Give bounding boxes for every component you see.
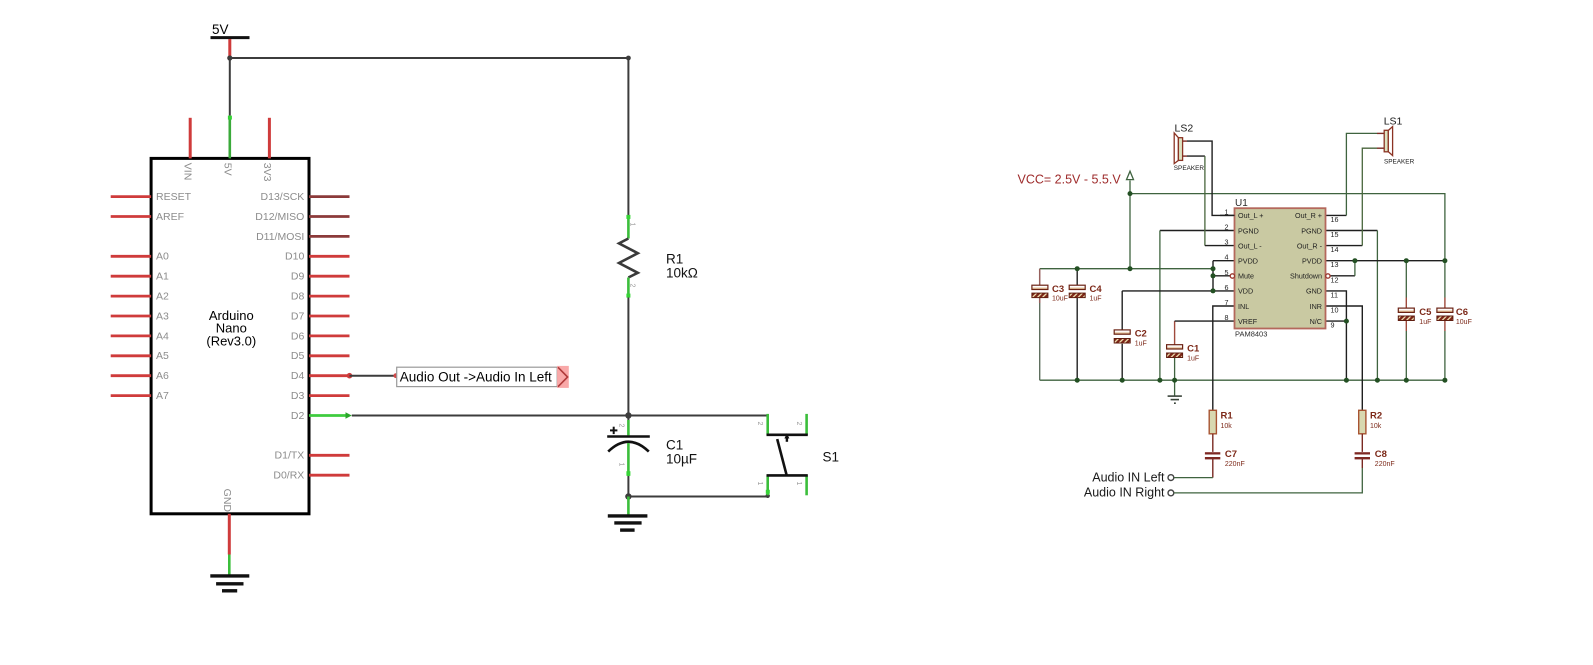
svg-text:Shutdown: Shutdown	[1290, 272, 1322, 281]
junction C5 on PVDD line	[1404, 258, 1409, 263]
pin D5	[291, 350, 350, 362]
svg-text:2: 2	[618, 424, 625, 428]
svg-text:GND: GND	[1306, 287, 1322, 296]
svg-text:C8: C8	[1375, 449, 1387, 460]
svg-text:10kΩ: 10kΩ	[666, 266, 698, 281]
capacitor C7	[1205, 449, 1245, 468]
svg-text:A0: A0	[156, 251, 169, 263]
junction Shutdown on PVDD line	[1352, 258, 1357, 263]
U1 pin 16 Out_R+	[1295, 211, 1338, 224]
svg-text:A6: A6	[156, 370, 169, 382]
U1 pin 1 Out_L+	[1220, 207, 1264, 220]
wire C7 to audio in left	[1212, 459, 1214, 478]
svg-text:7: 7	[1225, 298, 1229, 307]
junction C4 top on VCC bus	[1075, 266, 1080, 271]
wire pin12 Shutdown up to PVDD line	[1330, 261, 1355, 276]
wire pin2 PGND	[1160, 231, 1235, 381]
pin D2 (connected, green)	[291, 410, 352, 422]
svg-text:PGND: PGND	[1301, 226, 1322, 235]
wire LS2 to pin1 Out_L+	[1183, 141, 1235, 215]
speaker LS2	[1174, 123, 1205, 173]
svg-text:LS2: LS2	[1175, 123, 1194, 135]
wire pin15 PGND down to bus	[1326, 231, 1378, 381]
svg-text:10uF: 10uF	[1052, 296, 1068, 303]
pin RESET	[111, 191, 192, 203]
svg-text:D3: D3	[291, 390, 305, 402]
VCC power arrow	[1018, 171, 1134, 186]
U1 pin 4 PVDD	[1225, 253, 1258, 266]
capacitor C8	[1355, 449, 1395, 468]
svg-text:Audio Out ->Audio In Left: Audio Out ->Audio In Left	[400, 370, 552, 385]
svg-text:Out_L +: Out_L +	[1238, 211, 1264, 220]
svg-text:Out_R -: Out_R -	[1297, 241, 1323, 250]
svg-text:4: 4	[1225, 253, 1229, 262]
ground (right schematic)	[1168, 380, 1182, 403]
svg-text:8: 8	[1225, 313, 1229, 322]
pin A2	[111, 291, 169, 303]
svg-text:A3: A3	[156, 310, 169, 322]
svg-text:1uF: 1uF	[1090, 296, 1102, 303]
junction VDD pin tie	[1211, 288, 1216, 293]
svg-text:2: 2	[1225, 223, 1229, 232]
ground (Arduino GND)	[210, 576, 249, 591]
svg-text:PVDD: PVDD	[1238, 257, 1258, 266]
label R1 10k	[666, 252, 698, 281]
svg-text:2: 2	[795, 422, 802, 426]
U1 pin 6 VDD	[1225, 283, 1254, 296]
svg-text:15: 15	[1331, 230, 1339, 239]
svg-text:SPEAKER: SPEAKER	[1174, 165, 1205, 172]
svg-text:1: 1	[629, 223, 636, 227]
svg-text:12: 12	[1331, 275, 1339, 284]
wire bottom ground bus	[1040, 379, 1445, 381]
pin A1	[111, 271, 169, 283]
junction Mute pin tie	[1211, 273, 1216, 278]
capacitor C3	[1032, 269, 1068, 381]
svg-text:VCC= 2.5V - 5.5.V: VCC= 2.5V - 5.5.V	[1018, 173, 1122, 187]
svg-text:GND: GND	[221, 489, 233, 513]
svg-text:A2: A2	[156, 291, 169, 303]
svg-text:1: 1	[795, 482, 802, 486]
svg-text:D13/SCK: D13/SCK	[261, 191, 305, 203]
svg-text:VREF: VREF	[1238, 317, 1258, 326]
junction GND pin11 on ground bus	[1344, 378, 1349, 383]
svg-text:16: 16	[1331, 215, 1339, 224]
junction top bus at pins column	[1211, 266, 1216, 271]
U1 pin 12 Shutdown (bubble)	[1290, 272, 1338, 285]
svg-text:R1: R1	[1221, 411, 1234, 422]
wire LS2 to pin3 Out_L-	[1183, 156, 1235, 246]
U1 pin 7 INL	[1225, 298, 1250, 311]
svg-text:C6: C6	[1456, 307, 1468, 318]
svg-text:10k: 10k	[1221, 423, 1233, 430]
svg-text:PAM8403: PAM8403	[1235, 329, 1267, 338]
svg-text:5: 5	[1225, 268, 1229, 277]
junction VCC column on top bus	[1128, 266, 1133, 271]
capacitor C4	[1069, 269, 1102, 381]
wire pins 4/5/6 tie to VCC bus	[1122, 261, 1234, 291]
svg-text:Mute: Mute	[1238, 272, 1254, 281]
U1 pin 10 INR	[1310, 302, 1339, 315]
junction C4 bottom on ground bus	[1075, 378, 1080, 383]
svg-text:C4: C4	[1090, 284, 1103, 295]
svg-text:13: 13	[1331, 260, 1339, 269]
svg-text:1: 1	[756, 482, 763, 486]
U1 pin 3 Out_L-	[1225, 238, 1263, 251]
svg-text:C3: C3	[1052, 284, 1064, 295]
terminal Audio IN Right	[1084, 459, 1362, 500]
pin D8	[291, 291, 350, 303]
svg-text:1: 1	[618, 463, 625, 467]
wire 5V supply to R1 top	[227, 55, 631, 216]
wire junction to S1 bottom	[628, 494, 770, 498]
svg-text:1uF: 1uF	[1419, 319, 1431, 326]
svg-text:D12/MISO: D12/MISO	[255, 211, 304, 223]
speaker LS1	[1384, 116, 1415, 166]
Arduino Nano module body U-left	[151, 158, 309, 513]
junction PGND pin2 on ground bus	[1157, 378, 1162, 383]
svg-text:5V: 5V	[212, 22, 229, 37]
wire D4 to net label	[347, 373, 398, 379]
U1 pin 15 PGND	[1301, 226, 1338, 239]
svg-text:VIN: VIN	[182, 163, 194, 181]
U1 pin 14 Out_R-	[1297, 241, 1339, 254]
svg-text:10k: 10k	[1370, 423, 1382, 430]
pin 3V3	[261, 118, 273, 182]
capacitor C1 (right schematic)	[1167, 321, 1200, 380]
pin D7	[291, 310, 350, 322]
svg-text:220nF: 220nF	[1375, 461, 1395, 468]
svg-text:A5: A5	[156, 350, 169, 362]
svg-text:Out_L -: Out_L -	[1238, 241, 1262, 250]
wire VCC net (vertical + long horizontal + right drop)	[1130, 181, 1445, 269]
pin D0/RX	[273, 470, 349, 482]
switch S1	[756, 414, 808, 495]
junction C6 on PVDD line	[1442, 258, 1447, 263]
wire pin16 Out_R+ to LS1	[1326, 133, 1385, 215]
svg-text:VDD: VDD	[1238, 287, 1253, 296]
capacitor C2	[1114, 291, 1147, 380]
junction N/C to GND column	[1344, 319, 1349, 324]
svg-text:C7: C7	[1225, 449, 1237, 460]
U1 pin 9 N/C	[1310, 317, 1335, 330]
svg-text:5V: 5V	[221, 163, 233, 176]
terminal Audio IN Left	[1092, 470, 1213, 484]
svg-text:C1: C1	[1187, 343, 1200, 354]
svg-text:D7: D7	[291, 310, 305, 322]
junction PGND pin15 on ground bus	[1375, 378, 1380, 383]
svg-text:D1/TX: D1/TX	[275, 450, 305, 462]
pin 5V (connected, green)	[221, 116, 233, 176]
U1 pin 13 PVDD	[1302, 257, 1338, 270]
svg-text:220nF: 220nF	[1225, 461, 1245, 468]
U1 pin 8 VREF	[1225, 313, 1258, 326]
svg-text:PGND: PGND	[1238, 226, 1259, 235]
svg-text:(Rev3.0): (Rev3.0)	[206, 333, 256, 348]
pin D3	[291, 390, 350, 402]
svg-text:PVDD: PVDD	[1302, 257, 1322, 266]
pin A3	[111, 310, 169, 322]
svg-text:D8: D8	[291, 291, 305, 303]
svg-text:A7: A7	[156, 390, 169, 402]
svg-text:S1: S1	[823, 449, 840, 464]
svg-text:11: 11	[1331, 290, 1338, 299]
wire R2 to C8	[1361, 434, 1363, 452]
svg-text:D11/MOSI: D11/MOSI	[256, 231, 304, 243]
resistor R1	[619, 215, 638, 298]
pin GND bottom	[221, 489, 233, 576]
pin A7	[111, 390, 169, 402]
svg-text:6: 6	[1225, 283, 1229, 292]
junction C1 bottom on ground bus	[1172, 378, 1177, 383]
capacitor C5	[1398, 261, 1432, 381]
wire R1 bottom to junction	[627, 298, 629, 416]
svg-text:R1: R1	[666, 252, 683, 267]
pin D6	[291, 330, 350, 342]
svg-text:D0/RX: D0/RX	[273, 470, 304, 482]
wire pin11 GND down to bus	[1326, 291, 1347, 380]
power symbol 5V	[211, 22, 250, 57]
wire top decoupling bus	[1040, 268, 1213, 270]
resistor R2	[1359, 410, 1382, 434]
svg-text:N/C: N/C	[1310, 317, 1322, 326]
svg-text:D5: D5	[291, 350, 305, 362]
svg-text:SPEAKER: SPEAKER	[1384, 158, 1415, 165]
wire pin13 PVDD line	[1326, 260, 1445, 262]
pin A6	[111, 370, 169, 382]
pin D12/MISO	[255, 211, 349, 223]
pin D4	[291, 370, 350, 382]
pin A0	[111, 251, 169, 263]
wire R1 to C7	[1212, 434, 1214, 452]
net label Audio Out ->Audio In Left	[397, 366, 569, 388]
pin D11/MOSI	[256, 231, 349, 243]
svg-text:2: 2	[756, 422, 763, 426]
node junction D2/R1/C1/S1	[625, 412, 631, 418]
pin A5	[111, 350, 169, 362]
pin AREF	[111, 211, 184, 223]
svg-text:9: 9	[1331, 321, 1335, 330]
wire VREF pin8 to C1	[1175, 320, 1235, 322]
svg-text:D9: D9	[291, 271, 305, 283]
wire pin9 N/C to GND drop	[1326, 320, 1347, 322]
U1 pin 2 PGND	[1225, 223, 1259, 236]
svg-text:Audio IN Left: Audio IN Left	[1092, 470, 1165, 484]
svg-text:10: 10	[1331, 306, 1339, 315]
pin A4	[111, 330, 169, 342]
wire junction to S1 top	[628, 415, 767, 417]
node junction C1/S1 bottom	[625, 493, 631, 499]
svg-text:C1: C1	[666, 437, 683, 452]
svg-text:10µF: 10µF	[666, 451, 697, 466]
pin D1/TX	[275, 450, 350, 462]
wire pin14 Out_R- to LS1	[1326, 148, 1385, 245]
capacitor C6	[1437, 261, 1472, 381]
svg-text:INL: INL	[1238, 302, 1249, 311]
label C1 10uF	[666, 437, 697, 466]
junction VCC arrow node	[1128, 191, 1133, 196]
junction C6 bottom on ground bus	[1442, 378, 1447, 383]
svg-text:D4: D4	[291, 370, 305, 382]
svg-text:INR: INR	[1310, 302, 1322, 311]
ground (C1)	[608, 497, 648, 531]
capacitor C1 (electrolytic)	[607, 416, 650, 497]
pin D13/SCK	[261, 191, 350, 203]
svg-text:10uF: 10uF	[1456, 319, 1472, 326]
junction C5 bottom on ground bus	[1404, 378, 1409, 383]
pin D9	[291, 271, 350, 283]
resistor R1 (right schematic)	[1209, 410, 1233, 434]
wire pin10 INR to R2	[1326, 306, 1363, 410]
svg-text:RESET: RESET	[156, 191, 192, 203]
pin D10	[285, 251, 349, 263]
op-amp U1 PAM8403 body	[1235, 198, 1326, 338]
svg-text:A1: A1	[156, 271, 169, 283]
svg-text:1: 1	[1225, 207, 1229, 216]
U1 pin 11 GND	[1306, 287, 1338, 300]
svg-text:3V3: 3V3	[261, 163, 273, 182]
svg-text:1uF: 1uF	[1187, 355, 1199, 362]
wire D2 to C1 junction	[352, 415, 629, 417]
U1 pin 5 Mute (bubble)	[1225, 268, 1254, 281]
svg-text:C2: C2	[1135, 329, 1147, 340]
junction C2 bottom on ground bus	[1120, 378, 1125, 383]
pin VIN	[182, 118, 194, 181]
svg-text:C5: C5	[1419, 307, 1432, 318]
svg-text:D2: D2	[291, 410, 305, 422]
svg-text:R2: R2	[1370, 411, 1382, 422]
svg-text:D10: D10	[285, 251, 304, 263]
svg-text:AREF: AREF	[156, 211, 184, 223]
svg-text:A4: A4	[156, 330, 169, 342]
wire INL pin7 to R1	[1213, 306, 1235, 410]
svg-text:D6: D6	[291, 330, 305, 342]
svg-text:14: 14	[1331, 245, 1339, 254]
svg-text:Audio IN Right: Audio IN Right	[1084, 486, 1165, 500]
svg-text:1uF: 1uF	[1135, 341, 1147, 348]
svg-text:U1: U1	[1235, 198, 1248, 209]
svg-text:Out_R +: Out_R +	[1295, 211, 1322, 220]
svg-text:2: 2	[629, 284, 636, 288]
svg-text:3: 3	[1225, 238, 1229, 247]
